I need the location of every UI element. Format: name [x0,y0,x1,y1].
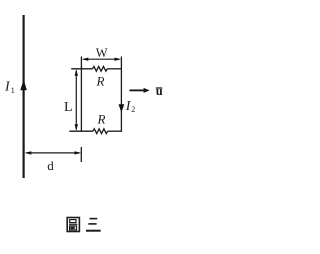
wire: loop top-right segment [107,68,121,70]
svg-text:2: 2 [131,105,135,114]
resistor R (bottom) zigzag [93,129,108,134]
svg-text:d: d [47,158,54,173]
svg-text:L: L [64,100,73,115]
svg-text:W: W [96,46,108,60]
wire: loop right side [120,57,122,132]
resistor R (top) zigzag [93,66,108,71]
current I1 arrowhead (upward) on long wire [20,80,27,91]
dimension d arrow (double-headed) [26,152,79,154]
dimension d right extension tick [80,147,82,162]
dimension W arrow (double-headed) [84,58,120,60]
velocity vector u arrow [130,89,146,91]
svg-text:u: u [156,84,163,98]
caption character 圖 (Figure) drawn as strokes [67,218,79,232]
svg-text:R: R [96,73,105,88]
current I2 arrowhead (downward) on loop right side [119,104,125,112]
wire: loop bottom-left segment (with L-dimension extension) [69,130,93,132]
svg-text:1: 1 [11,85,15,95]
svg-text:R: R [97,111,106,126]
wire: loop bottom-right segment [108,130,122,132]
wire: loop top-left segment (with L-dimension extension) [71,68,92,70]
dimension L arrow (double-headed, vertical) [75,71,77,130]
caption character 三 (three) drawn as strokes [86,219,101,231]
wire: long straight vertical wire carrying I1 [23,15,25,178]
vector bar over u [156,87,163,89]
wire: loop left side [80,57,82,132]
